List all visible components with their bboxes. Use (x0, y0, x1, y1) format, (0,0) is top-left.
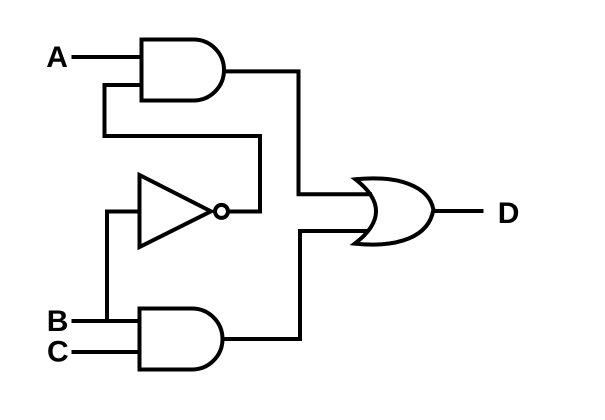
wire: U4 output to node D (433, 209, 484, 213)
wire: inverter U2 output to feedback riser (229, 210, 262, 214)
and-gate U1 (top) (142, 40, 225, 101)
inverter U2 output bubble (215, 205, 228, 218)
or-gate U4 (355, 178, 434, 244)
wire: B to AND gate U3 upper input (72, 319, 142, 323)
wire: U3 output to OR gate U4 bottom input (221, 231, 369, 339)
wire: feedback from inverter U2 output up to U1 lower input (105, 85, 261, 213)
svg-text:C: C (47, 336, 69, 369)
and-gate U3 (bottom) (140, 309, 223, 370)
svg-text:A: A (46, 41, 68, 74)
inverter U2 triangle (140, 175, 212, 247)
wire: A to AND gate U1 upper input (72, 55, 144, 59)
wire: U1 output to OR gate U4 top input (222, 71, 372, 194)
wire: node B riser to inverter U2 input (107, 212, 141, 324)
svg-text:B: B (47, 305, 69, 338)
svg-text:D: D (498, 197, 520, 230)
wire: C to AND gate U3 lower input (72, 350, 142, 354)
